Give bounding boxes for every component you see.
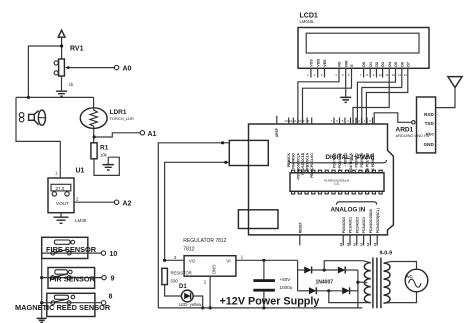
wire bottom row left xyxy=(298,290,309,292)
svg-text:GND: GND xyxy=(424,142,435,147)
svg-text:R1: R1 xyxy=(100,145,109,152)
svg-text:8: 8 xyxy=(109,294,113,301)
svg-text:REGULATOR 7812: REGULATOR 7812 xyxy=(183,238,226,244)
wire cap bottom xyxy=(263,292,265,308)
svg-text:FIRE SENSOR: FIRE SENSOR xyxy=(46,245,97,254)
junction LED rail xyxy=(201,306,204,309)
svg-text:10: 10 xyxy=(379,73,383,77)
svg-text:D2: D2 xyxy=(375,62,379,67)
wire LED to rail xyxy=(193,296,203,308)
wire LCD RS to Arduino xyxy=(298,78,339,125)
wire RV1 wiper to A0 xyxy=(69,67,115,69)
svg-text:A1: A1 xyxy=(346,242,350,246)
svg-text:VDD: VDD xyxy=(316,59,320,67)
LED D1 xyxy=(181,290,193,302)
svg-text:PB4/MISO: PB4/MISO xyxy=(292,153,296,169)
diode D5 (1N4007) xyxy=(342,287,349,294)
wire LCD D6 to Arduino xyxy=(362,78,402,125)
wire cap top xyxy=(263,260,265,279)
wire U1 VOUT to A2 xyxy=(74,201,114,203)
svg-text:VI: VI xyxy=(226,258,230,263)
svg-text:1121: 1121 xyxy=(334,182,340,186)
wire buzzer loop xyxy=(16,97,94,178)
wire GND pin to rail xyxy=(209,276,211,308)
junction bottom row xyxy=(327,289,330,292)
LCD1 display xyxy=(298,28,429,69)
junction at buzzer loop top xyxy=(27,96,30,99)
svg-text:VO: VO xyxy=(189,258,196,263)
Arduino bottom pin stubs xyxy=(300,235,377,246)
fire sensor switch xyxy=(42,249,101,255)
diode D3 (1N4007) xyxy=(338,267,345,274)
svg-text:PC3/ADC3: PC3/ADC3 xyxy=(362,217,366,233)
LCD pin stubs xyxy=(311,68,408,77)
wire bottom row mid xyxy=(316,290,342,292)
Arduino board outline ARD1 xyxy=(249,124,394,235)
svg-text:TXD: TXD xyxy=(425,121,435,126)
ground at sensor bus bottom xyxy=(37,318,47,322)
wire Arduino RX to module TXD xyxy=(374,113,412,124)
svg-text:7812: 7812 xyxy=(183,246,194,252)
resistor R1 xyxy=(91,143,97,159)
resistor 330 xyxy=(162,268,168,284)
transformer TR1 primary xyxy=(384,262,391,304)
svg-text:12: 12 xyxy=(392,73,396,77)
bracket analog xyxy=(337,202,377,205)
junction on ground return xyxy=(221,141,224,144)
svg-text:A1: A1 xyxy=(148,131,157,138)
node 10 xyxy=(101,251,117,258)
junction GND rail xyxy=(209,306,212,309)
svg-text:GND: GND xyxy=(211,265,216,275)
LCD pin labels xyxy=(310,59,411,67)
wire to secondary bottom xyxy=(329,291,363,303)
junction cap rail xyxy=(262,306,265,309)
node A0 xyxy=(114,65,131,72)
svg-text:11: 11 xyxy=(294,119,297,123)
magnetic reed sensor box xyxy=(47,293,95,316)
svg-text:U1: U1 xyxy=(76,168,85,175)
ground under LCD RW xyxy=(340,78,351,103)
wire LCD E to Arduino xyxy=(303,78,352,125)
wire LCD D7 to Arduino xyxy=(366,78,407,125)
bluetooth module xyxy=(417,97,436,153)
wire LCD D5 to Arduino xyxy=(357,78,395,125)
antenna xyxy=(436,77,463,108)
svg-text:↓: ↓ xyxy=(66,193,68,197)
svg-text:VSS: VSS xyxy=(310,59,314,67)
svg-text:1000u: 1000u xyxy=(280,285,293,290)
wire ground return vertical xyxy=(158,143,229,308)
svg-text:RESET: RESET xyxy=(298,222,302,233)
ground under U1 xyxy=(54,213,69,224)
wire +12V feed vertical xyxy=(165,162,230,260)
svg-text:↑: ↑ xyxy=(53,193,55,197)
power jack block xyxy=(238,210,278,229)
svg-text:LM016L: LM016L xyxy=(300,19,316,24)
open terminal at TXD xyxy=(412,121,415,124)
bracket digital xyxy=(289,160,387,163)
svg-text:D1: D1 xyxy=(369,62,373,67)
ground under RV1 xyxy=(56,91,67,96)
svg-text:13: 13 xyxy=(398,73,402,77)
svg-text:LM35: LM35 xyxy=(75,218,87,223)
svg-text:+12V Power Supply: +12V Power Supply xyxy=(220,296,320,308)
svg-text:PC2/ADC2: PC2/ADC2 xyxy=(355,217,359,233)
svg-text:PC1/ADC1: PC1/ADC1 xyxy=(349,217,353,233)
svg-text:~PB3/MOSI/OC2A: ~PB3/MOSI/OC2A xyxy=(296,152,300,180)
LCD pin numbers xyxy=(307,73,407,77)
Arduino digital pin numbers xyxy=(284,119,371,123)
svg-text:A2: A2 xyxy=(123,201,132,208)
svg-text:PB5/SCK: PB5/SCK xyxy=(287,152,291,167)
svg-text:ANALOG IN: ANALOG IN xyxy=(331,207,366,214)
svg-text:D1: D1 xyxy=(179,284,187,290)
transformer TR1 secondary xyxy=(363,261,371,303)
AC source V1 xyxy=(405,269,428,292)
svg-text:DIGITAL (~PWM): DIGITAL (~PWM) xyxy=(326,154,375,161)
diode D2 (1N4007) xyxy=(304,267,311,274)
svg-text:A5: A5 xyxy=(373,242,377,246)
wire top row right xyxy=(345,269,358,271)
svg-text:27.0: 27.0 xyxy=(56,186,65,191)
junction bus/reed xyxy=(40,301,43,304)
svg-text:TORCH_LDR: TORCH_LDR xyxy=(110,116,134,121)
capacitor C1 xyxy=(253,279,275,291)
svg-text:10: 10 xyxy=(298,119,302,123)
svg-text:A2: A2 xyxy=(353,242,357,246)
svg-text:14: 14 xyxy=(404,73,408,77)
svg-text:10: 10 xyxy=(110,251,118,258)
wire from +V to buzzer loop xyxy=(28,46,61,97)
svg-text:RS: RS xyxy=(338,61,342,67)
svg-text:9: 9 xyxy=(111,275,115,282)
reed sensor switch xyxy=(42,299,102,305)
wire ground rail xyxy=(158,307,362,309)
wire LCD D4 to Arduino xyxy=(353,78,389,125)
svg-text:ARDUINO UNO R3: ARDUINO UNO R3 xyxy=(396,133,430,138)
wire sensor ground bus xyxy=(41,259,43,318)
svg-text:VEE: VEE xyxy=(323,59,327,67)
Arduino top pin labels xyxy=(275,128,375,181)
power symbol +V xyxy=(58,30,65,59)
wire centre tap xyxy=(358,281,363,283)
junction LDR/R1/A1 xyxy=(93,135,96,138)
wire bridge left vertical xyxy=(297,260,299,291)
wire VI to bridge xyxy=(236,259,298,261)
regulator U2 7812 xyxy=(184,256,236,277)
junction bus/PIR xyxy=(40,276,43,279)
wire to A1 xyxy=(94,133,140,137)
svg-text:MAGNETIC REED SENSOR: MAGNETIC REED SENSOR xyxy=(15,303,111,312)
svg-text:D0: D0 xyxy=(362,62,366,67)
junction pin3 tee xyxy=(163,259,166,262)
potentiometer RV1 xyxy=(54,59,69,91)
svg-text:9-0-9: 9-0-9 xyxy=(380,251,393,257)
svg-text:12: 12 xyxy=(289,119,293,123)
Arduino top pin stubs xyxy=(277,116,373,124)
wire top row left xyxy=(298,269,305,271)
PIR sensor switch xyxy=(42,274,102,280)
wire primary top to AC xyxy=(391,262,417,270)
svg-text:A0: A0 xyxy=(339,242,343,246)
svg-text:1N4007: 1N4007 xyxy=(316,279,334,285)
svg-text:13: 13 xyxy=(284,119,288,123)
svg-text:D3: D3 xyxy=(381,62,385,67)
USB connector block xyxy=(229,140,268,165)
svg-text:D7: D7 xyxy=(406,62,410,67)
svg-text:A0: A0 xyxy=(123,66,132,73)
wire bridge right vertical xyxy=(357,270,359,308)
junction on +12V feed xyxy=(224,161,227,164)
junction top row xyxy=(323,268,326,271)
LDR1 xyxy=(80,108,107,129)
svg-text:A4: A4 xyxy=(366,242,370,246)
Arduino analog pin labels xyxy=(342,208,380,233)
ground near R1 xyxy=(103,157,114,170)
junction at RV1 top xyxy=(60,44,63,47)
wire to LDR1 top xyxy=(93,97,95,108)
junction cap top xyxy=(262,259,265,262)
transformer TR1 core xyxy=(373,258,381,309)
wire LDR1 to R1 xyxy=(93,128,95,142)
wire R1 to ground loop xyxy=(94,157,119,175)
svg-text:LED- yellow: LED- yellow xyxy=(179,302,202,307)
wire bottom row right xyxy=(350,290,358,292)
wire pin3 xyxy=(165,259,185,261)
junction centre tap xyxy=(356,281,359,284)
svg-text:PB0/ICP1/CLKO: PB0/ICP1/CLKO xyxy=(310,153,314,178)
svg-text:10k: 10k xyxy=(100,153,108,158)
node 8 xyxy=(101,294,112,305)
svg-text:PC0/ADC0: PC0/ADC0 xyxy=(342,217,346,233)
wire primary bottom to AC xyxy=(391,292,417,303)
node A2 xyxy=(114,200,131,208)
svg-text:E: E xyxy=(350,64,354,67)
Arduino analog pin numbers xyxy=(339,242,377,246)
svg-text:PIR SENSOR: PIR SENSOR xyxy=(49,275,95,284)
diode D4 (1N4007) xyxy=(309,287,316,294)
svg-text:+50V: +50V xyxy=(280,277,292,282)
svg-text:AREF: AREF xyxy=(275,128,279,137)
svg-text:PC5/ADC5(SCL): PC5/ADC5(SCL) xyxy=(376,208,380,233)
svg-text:D5: D5 xyxy=(394,62,398,67)
wire top row mid xyxy=(312,269,338,271)
PIR sensor box xyxy=(48,268,95,289)
svg-text:A3: A3 xyxy=(359,242,363,246)
svg-text:330: 330 xyxy=(170,279,178,284)
svg-text:RESISTOR: RESISTOR xyxy=(171,270,192,275)
IC U3 ATMEGA328P xyxy=(290,170,384,194)
svg-text:RXD: RXD xyxy=(424,112,434,117)
wire to secondary top xyxy=(324,261,363,270)
svg-text:D6: D6 xyxy=(400,62,404,67)
svg-text:RW: RW xyxy=(344,60,348,67)
node A1 xyxy=(140,131,156,138)
svg-text:Vcc: Vcc xyxy=(426,132,435,137)
svg-text:RV1: RV1 xyxy=(70,46,84,53)
node 9 xyxy=(102,275,115,282)
svg-text:11: 11 xyxy=(385,73,388,77)
op-amp U1 (LM35 temperature sensor) xyxy=(48,178,74,213)
fire sensor box xyxy=(42,237,88,258)
svg-text:PC4/ADC4/SDA: PC4/ADC4/SDA xyxy=(369,208,373,233)
svg-text:VOUT: VOUT xyxy=(56,201,69,206)
wire 330 to LED xyxy=(165,285,182,296)
buzzer LS1 xyxy=(19,110,45,125)
